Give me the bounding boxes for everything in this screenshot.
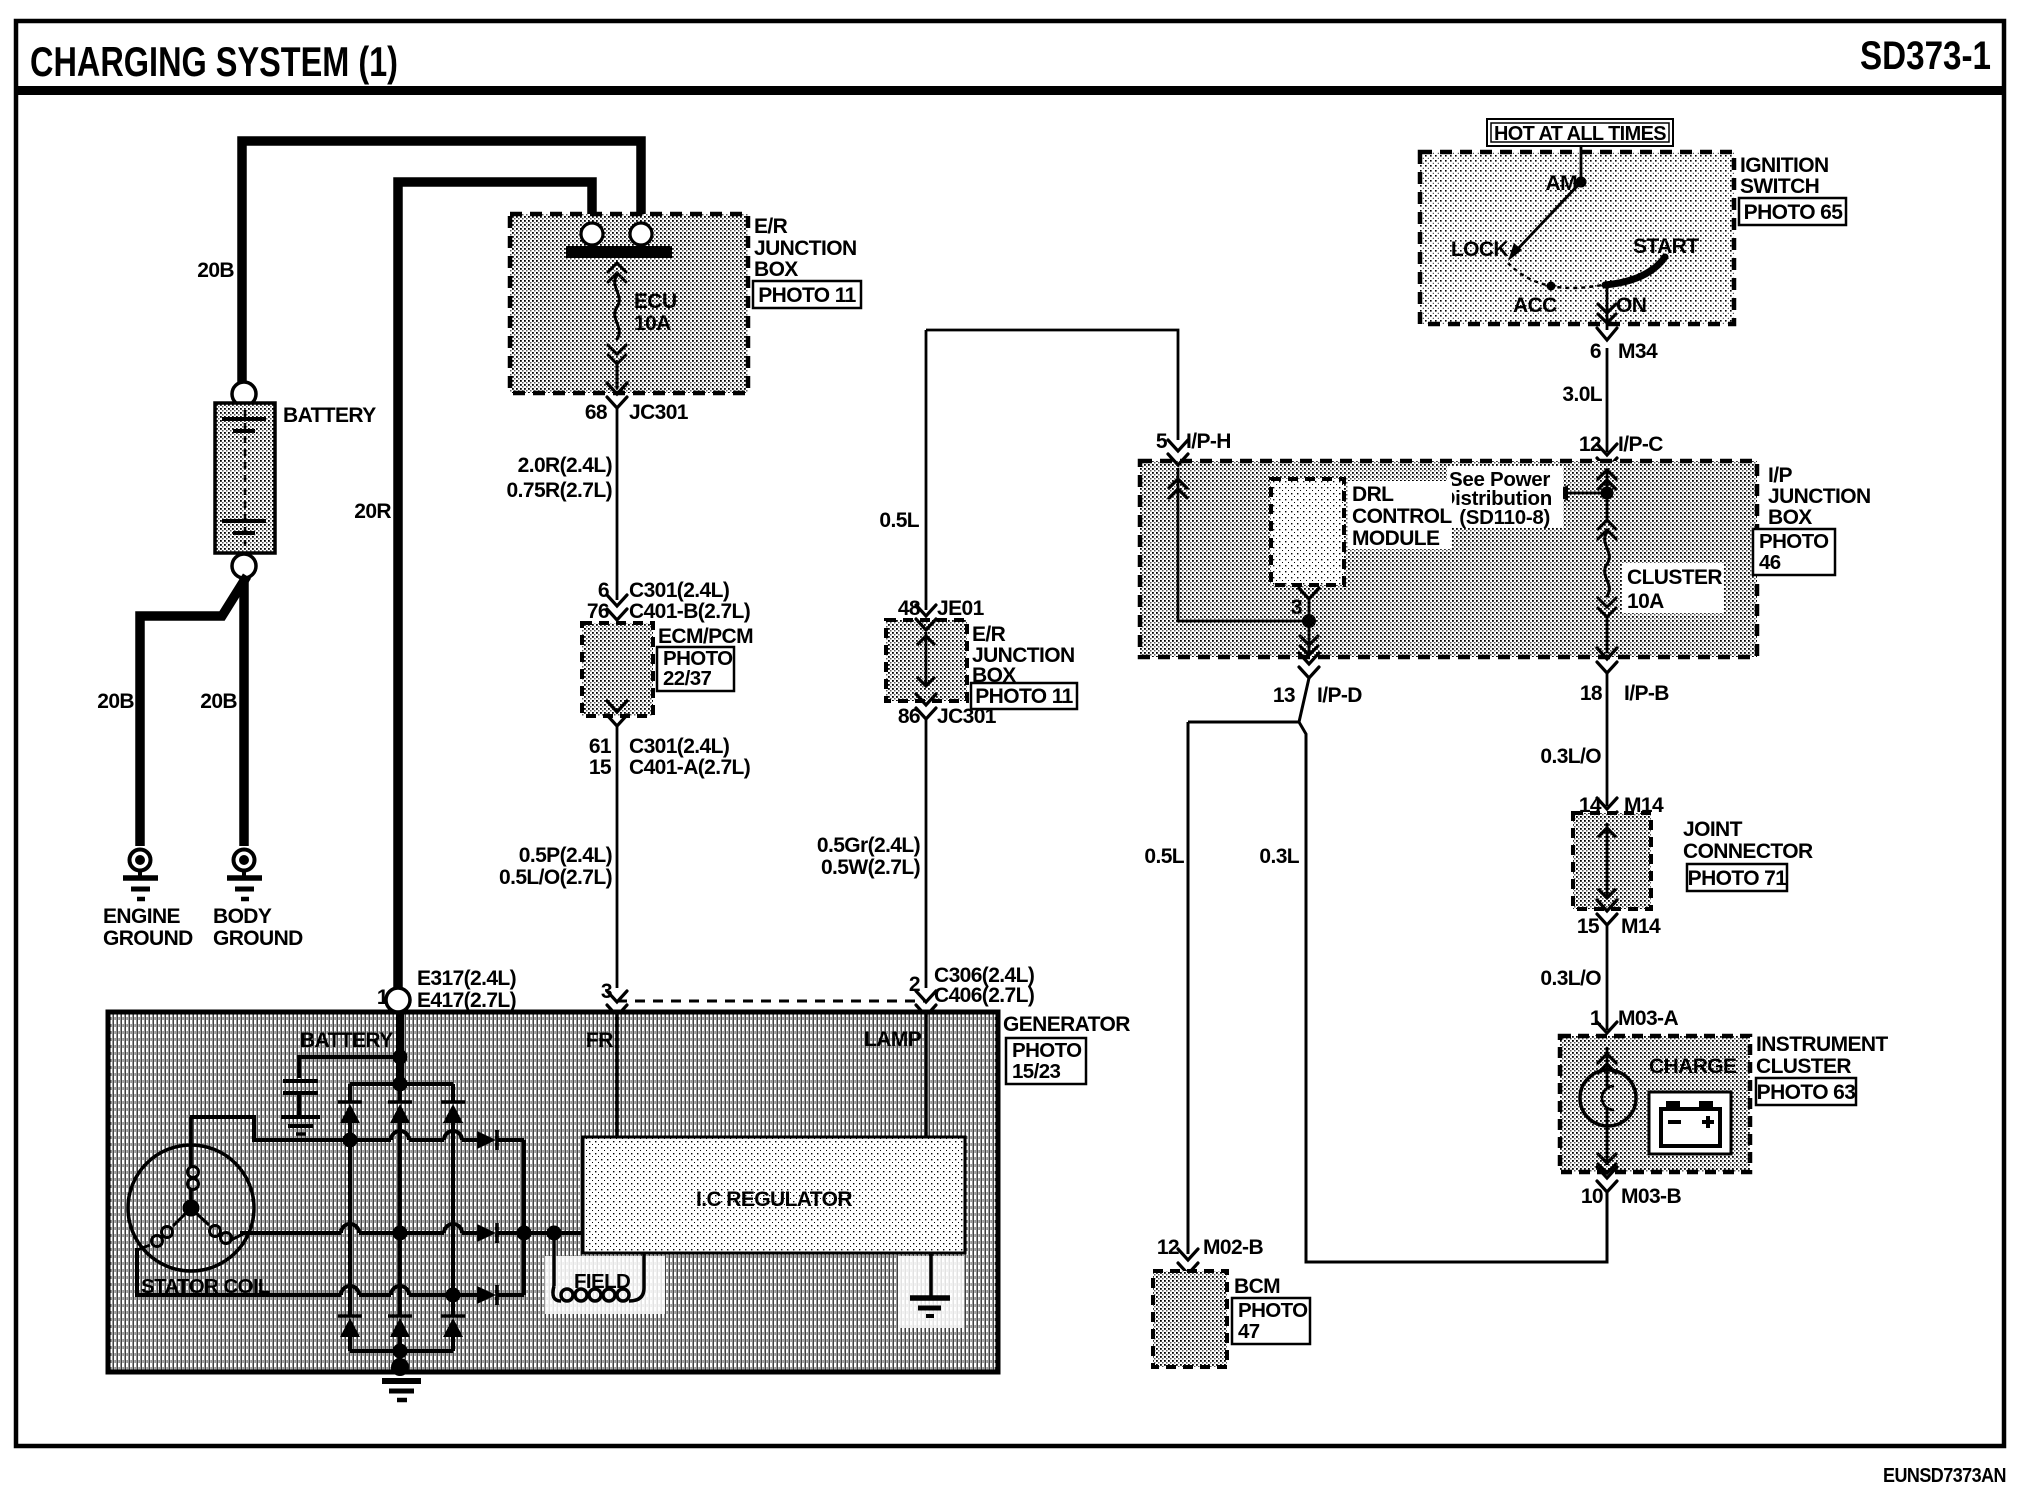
- svg-text:C401-A(2.7L): C401-A(2.7L): [629, 756, 750, 779]
- svg-text:FIELD: FIELD: [574, 1270, 630, 1293]
- internal capacitor-ground branch: [281, 1057, 400, 1134]
- wire thick 20R run to junction box: [398, 182, 592, 990]
- svg-text:GROUND: GROUND: [213, 927, 303, 950]
- wire 15 M14 to M03-A: [1606, 925, 1609, 1030]
- svg-text:I/P-C: I/P-C: [1618, 433, 1663, 456]
- svg-text:0.5L: 0.5L: [1144, 845, 1184, 868]
- diode D7 bottom-left: [338, 1316, 362, 1351]
- svg-text:2.0R(2.4L): 2.0R(2.4L): [518, 454, 612, 477]
- wire FR inside generator: [615, 1012, 619, 1137]
- svg-text:PHOTO 71: PHOTO 71: [1688, 867, 1788, 890]
- svg-text:12: 12: [1157, 1236, 1179, 1259]
- svg-text:CONTROL: CONTROL: [1352, 505, 1452, 528]
- node bottom rail: [393, 1344, 408, 1359]
- svg-text:15: 15: [589, 756, 612, 779]
- svg-text:10A: 10A: [1627, 590, 1664, 613]
- svg-text:C301(2.4L): C301(2.4L): [629, 735, 729, 758]
- battery top terminal circle: [232, 382, 256, 406]
- battery bottom terminal circle: [232, 554, 256, 578]
- wire M34 to I/P-C: [1606, 348, 1609, 452]
- I.C regulator box: [583, 1137, 965, 1253]
- wire 0.5L branch horizontal: [1188, 721, 1299, 724]
- svg-text:PHOTO: PHOTO: [1012, 1039, 1082, 1062]
- connector pin 1 M03-A: [1597, 1022, 1617, 1047]
- svg-text:JC301: JC301: [629, 401, 689, 424]
- svg-text:JOINT: JOINT: [1683, 818, 1743, 841]
- BCM box: [1153, 1271, 1227, 1367]
- E/R junction box (mid): [886, 620, 967, 701]
- title separator bar: [16, 86, 2004, 95]
- label PHOTO 15/23 box: [1006, 1038, 1086, 1084]
- ignition switch ACC node: [1547, 282, 1556, 291]
- connector pin 5 I/P-H: [1168, 440, 1188, 465]
- node trio bus junction: [517, 1226, 532, 1241]
- svg-text:0.5Gr(2.4L): 0.5Gr(2.4L): [817, 834, 920, 857]
- svg-text:CLUSTER: CLUSTER: [1627, 566, 1722, 589]
- svg-text:FR: FR: [586, 1029, 613, 1052]
- svg-text:1: 1: [1590, 1007, 1602, 1030]
- battery BAT1: [215, 403, 275, 553]
- svg-text:HOT AT ALL TIMES: HOT AT ALL TIMES: [1494, 122, 1666, 145]
- connector pin 61/15 ECM bottom: [607, 701, 627, 726]
- svg-text:0.5L: 0.5L: [879, 509, 919, 532]
- svg-text:PHOTO 11: PHOTO 11: [758, 284, 856, 307]
- svg-text:18: 18: [1580, 682, 1603, 705]
- svg-text:20B: 20B: [197, 259, 234, 282]
- wire bottom loop M03-B to I/P-D: [1299, 678, 1607, 1262]
- engine ground symbol: [123, 850, 158, 900]
- wire HOT to AM: [1580, 146, 1583, 182]
- bottom rail: [350, 1349, 453, 1353]
- label PHOTO 22/37 box: [657, 647, 734, 691]
- svg-text:I/P-H: I/P-H: [1186, 430, 1231, 453]
- generator dashed top link pin3-pin2: [617, 1000, 926, 1003]
- svg-text:MODULE: MODULE: [1352, 527, 1440, 550]
- svg-text:GROUND: GROUND: [103, 927, 193, 950]
- wire 0.5L down to JE01: [925, 330, 928, 610]
- stator coil Y windings: [137, 1117, 243, 1250]
- generator pin 1 circle: [386, 988, 410, 1012]
- node phase A left column: [343, 1133, 358, 1148]
- diode D6 trio bottom: [477, 1285, 524, 1305]
- phase C rail: [137, 1248, 477, 1295]
- svg-text:(SD110-8): (SD110-8): [1459, 506, 1550, 529]
- cluster exit arrow: [1598, 1154, 1616, 1173]
- svg-text:76: 76: [587, 600, 609, 623]
- charge lamp circle: [1580, 1070, 1636, 1126]
- connector pin 6 M34: [1597, 328, 1617, 340]
- instrument cluster box: [1560, 1036, 1750, 1172]
- svg-text:48: 48: [898, 597, 921, 620]
- connector pin 18 I/P-B: [1597, 648, 1617, 673]
- connector pin 68 JC301: [607, 383, 627, 408]
- ignition switch blade AM-LOCK: [1514, 182, 1581, 253]
- bridge column left: [348, 1123, 352, 1316]
- svg-text:20B: 20B: [200, 690, 237, 713]
- trio bus vertical: [522, 1140, 526, 1295]
- svg-text:M03-B: M03-B: [1621, 1185, 1681, 1208]
- svg-text:BOX: BOX: [1768, 506, 1812, 529]
- svg-text:EUNSD7373AN: EUNSD7373AN: [1883, 1464, 2006, 1487]
- I/P junction box: [1140, 461, 1757, 657]
- connector pin 12 M02-B: [1178, 1249, 1198, 1274]
- svg-text:JE01: JE01: [937, 597, 985, 620]
- see power distribution arrow: [1567, 492, 1607, 495]
- diode D1 top-left: [338, 1084, 362, 1123]
- connector pin 3 DRL: [1299, 588, 1319, 599]
- fuse CLUSTER 10A: [1598, 493, 1616, 652]
- svg-text:I/P-D: I/P-D: [1317, 684, 1362, 707]
- svg-text:M03-A: M03-A: [1618, 1007, 1678, 1030]
- svg-text:LOCK: LOCK: [1451, 238, 1509, 261]
- ignition switch AM node: [1576, 177, 1587, 188]
- diode D9 bottom-right: [441, 1316, 465, 1351]
- svg-text:E/R: E/R: [972, 623, 1006, 646]
- svg-text:ACC: ACC: [1513, 294, 1557, 317]
- label HOT AT ALL TIMES box: [1487, 119, 1673, 146]
- wire node to I/P-D: [1308, 621, 1311, 652]
- svg-text:PHOTO: PHOTO: [1238, 1299, 1308, 1322]
- wire through E/R box mid: [917, 632, 935, 686]
- wire LAMP inside generator: [924, 1012, 928, 1137]
- joint connector box: [1573, 813, 1651, 909]
- lamp ground white pocket: [898, 1256, 964, 1328]
- svg-text:CLUSTER: CLUSTER: [1756, 1055, 1851, 1078]
- svg-text:ON: ON: [1616, 294, 1646, 317]
- wire I/P-H leg: [1178, 468, 1309, 621]
- svg-text:15: 15: [1577, 915, 1600, 938]
- wire battery main drop: [396, 1012, 404, 1084]
- svg-text:46: 46: [1759, 551, 1781, 574]
- connector pin 12 I/P-C: [1597, 444, 1617, 469]
- stator coil circle: [128, 1145, 254, 1271]
- svg-text:PHOTO: PHOTO: [1759, 530, 1829, 553]
- svg-text:E317(2.4L): E317(2.4L): [417, 967, 516, 990]
- label PHOTO 71 box: [1687, 864, 1787, 891]
- svg-text:10A: 10A: [634, 312, 671, 335]
- wire 68 to ECM: [616, 408, 619, 600]
- connector pin 2 LAMP arrow: [916, 991, 936, 1016]
- svg-text:ENGINE: ENGINE: [103, 905, 181, 928]
- junction box bus bar: [566, 246, 672, 258]
- svg-text:BODY: BODY: [213, 905, 272, 928]
- svg-text:12: 12: [1579, 433, 1601, 456]
- node phase B mid column: [393, 1226, 408, 1241]
- svg-text:15/23: 15/23: [1012, 1060, 1060, 1083]
- svg-text:ECM/PCM: ECM/PCM: [658, 625, 753, 648]
- wire through joint connector: [1598, 823, 1616, 898]
- svg-text:6: 6: [1590, 340, 1601, 363]
- svg-text:BCM: BCM: [1234, 1275, 1280, 1298]
- svg-text:47: 47: [1238, 1320, 1260, 1343]
- svg-text:5: 5: [1156, 430, 1168, 453]
- node see-power junction: [1601, 487, 1614, 500]
- lamp-side ground: [910, 1253, 950, 1316]
- svg-text:JUNCTION: JUNCTION: [754, 237, 857, 260]
- svg-text:13: 13: [1273, 684, 1295, 707]
- wire 86 to generator LAMP: [925, 719, 928, 988]
- svg-text:I.C REGULATOR: I.C REGULATOR: [696, 1188, 852, 1211]
- label PHOTO 46 box: [1753, 529, 1835, 575]
- phase B rail: [240, 1224, 477, 1233]
- wire ON to M34: [1606, 284, 1609, 330]
- body ground symbol: [227, 850, 262, 900]
- svg-text:61: 61: [589, 735, 612, 758]
- connector pin 6/76 into ECM: [607, 595, 627, 620]
- svg-text:BATTERY: BATTERY: [300, 1029, 393, 1052]
- diode D5 trio mid: [477, 1223, 524, 1243]
- connector pin 86 JC301: [916, 694, 936, 719]
- svg-text:C401-B(2.7L): C401-B(2.7L): [629, 600, 750, 623]
- svg-text:20R: 20R: [354, 500, 391, 523]
- svg-text:DRL: DRL: [1352, 483, 1394, 506]
- svg-text:22/37: 22/37: [663, 667, 711, 690]
- svg-text:M02-B: M02-B: [1203, 1236, 1263, 1259]
- svg-text:SWITCH: SWITCH: [1740, 175, 1819, 198]
- diode D8 bottom-mid: [388, 1316, 412, 1351]
- connector pin 13 I/P-D: [1299, 653, 1319, 678]
- wire thick battery-to-junction (20B top run): [242, 141, 641, 386]
- svg-text:20B: 20B: [97, 690, 134, 713]
- label See Power Distribution (SD110-8): [1447, 466, 1563, 528]
- svg-text:6: 6: [598, 579, 609, 602]
- label PHOTO 47 box: [1232, 1298, 1310, 1344]
- svg-text:STATOR COIL: STATOR COIL: [141, 1275, 270, 1298]
- svg-text:JC301: JC301: [937, 705, 997, 728]
- svg-text:CHARGE: CHARGE: [1649, 1055, 1737, 1078]
- svg-text:M34: M34: [1618, 340, 1658, 363]
- wire I/P-C into box to node: [1606, 469, 1609, 493]
- wire trio to regulator: [524, 1231, 583, 1235]
- label CLUSTER 10A: [1622, 563, 1724, 613]
- DRL control module box: [1271, 479, 1344, 585]
- svg-text:3: 3: [1291, 596, 1302, 619]
- generator case ground: [382, 1358, 421, 1400]
- fuse ECU 10A: [608, 263, 626, 388]
- node DRL junction: [1302, 614, 1316, 628]
- junction box terminal circle B: [630, 223, 652, 245]
- svg-text:68: 68: [585, 401, 608, 424]
- wire DRL pin3 to node: [1308, 599, 1311, 621]
- field coil white pocket: [545, 1256, 665, 1314]
- generator box: [108, 1012, 998, 1372]
- svg-text:C301(2.4L): C301(2.4L): [629, 579, 729, 602]
- svg-text:SD373-1: SD373-1: [1860, 34, 1991, 78]
- svg-text:0.3L/O: 0.3L/O: [1540, 745, 1601, 768]
- svg-text:E/R: E/R: [754, 215, 788, 238]
- diode D4 trio top: [477, 1130, 524, 1150]
- label PHOTO 63 box: [1756, 1078, 1856, 1105]
- E/R junction box (top): [510, 214, 748, 393]
- svg-text:0.75R(2.7L): 0.75R(2.7L): [507, 479, 612, 502]
- connector pin 15 M14: [1597, 900, 1617, 925]
- svg-text:START: START: [1633, 235, 1699, 258]
- label PHOTO 11 box: [753, 281, 861, 308]
- connector pin 14 M14: [1597, 798, 1617, 823]
- svg-text:PHOTO 63: PHOTO 63: [1757, 1081, 1856, 1104]
- svg-text:INSTRUMENT: INSTRUMENT: [1756, 1033, 1888, 1056]
- svg-text:3.0L: 3.0L: [1562, 383, 1602, 406]
- wire I/P-B to M14: [1606, 673, 1609, 806]
- svg-text:LAMP: LAMP: [864, 1028, 922, 1051]
- bridge column mid: [398, 1123, 402, 1316]
- wire into charge lamp: [1606, 1047, 1609, 1070]
- ignition switch START arc: [1605, 257, 1665, 285]
- svg-text:BATTERY: BATTERY: [283, 404, 376, 427]
- ignition switch dashed arc: [1508, 263, 1607, 288]
- svg-text:86: 86: [898, 705, 920, 728]
- bridge column right: [451, 1123, 455, 1316]
- svg-text:I/P-B: I/P-B: [1624, 682, 1669, 705]
- svg-text:E417(2.7L): E417(2.7L): [417, 989, 516, 1012]
- node gen top A: [393, 1050, 408, 1065]
- diode D2 top-mid: [388, 1084, 412, 1123]
- phase A rail: [190, 1117, 477, 1140]
- label PHOTO 11 box mid: [971, 683, 1077, 709]
- field coil branch: [553, 1233, 644, 1301]
- wire 0.5L down to BCM: [1187, 722, 1190, 1254]
- lamp filament: [1602, 1086, 1614, 1110]
- svg-text:PHOTO 65: PHOTO 65: [1744, 201, 1844, 224]
- svg-text:10: 10: [1581, 1185, 1603, 1208]
- svg-text:0.5P(2.4L): 0.5P(2.4L): [519, 844, 612, 867]
- label DRL CONTROL MODULE: [1348, 481, 1452, 549]
- connector pin 10 M03-B: [1597, 1167, 1617, 1192]
- wire to generator ground: [398, 1351, 402, 1369]
- connector pin 48 JE01: [916, 605, 936, 630]
- diode bridge top rail: [350, 1082, 453, 1086]
- wire ECM to generator FR: [616, 726, 619, 988]
- svg-text:JUNCTION: JUNCTION: [1768, 485, 1871, 508]
- svg-text:GENERATOR: GENERATOR: [1003, 1013, 1130, 1036]
- svg-text:C406(2.7L): C406(2.7L): [934, 984, 1034, 1007]
- svg-text:0.3L/O: 0.3L/O: [1540, 967, 1601, 990]
- svg-text:M14: M14: [1621, 915, 1661, 938]
- connector pin 3 FR arrow: [607, 991, 627, 1016]
- wire thick to body ground: [239, 578, 249, 846]
- node gen top B: [393, 1077, 408, 1092]
- node field branch: [547, 1226, 562, 1241]
- wire thick branch to engine ground: [140, 576, 247, 846]
- svg-text:I/P: I/P: [1768, 464, 1792, 487]
- svg-text:CONNECTOR: CONNECTOR: [1683, 840, 1813, 863]
- svg-text:CHARGING SYSTEM (1): CHARGING SYSTEM (1): [30, 38, 398, 85]
- svg-text:0.3L: 0.3L: [1259, 845, 1299, 868]
- ignition switch box: [1420, 152, 1734, 324]
- junction box terminal circle A: [581, 223, 603, 245]
- svg-text:BOX: BOX: [754, 258, 798, 281]
- wire 0.5L from ignition feed horizontal: [926, 330, 1178, 440]
- svg-text:0.5W(2.7L): 0.5W(2.7L): [821, 856, 920, 879]
- label PHOTO 65 box: [1739, 198, 1846, 225]
- svg-text:IGNITION: IGNITION: [1740, 154, 1829, 177]
- svg-text:0.5L/O(2.7L): 0.5L/O(2.7L): [499, 866, 612, 889]
- node phase C right column: [446, 1288, 461, 1303]
- battery telltale icon: [1649, 1092, 1731, 1154]
- diode D3 top-right: [441, 1084, 465, 1123]
- ECM/PCM box: [582, 623, 653, 716]
- svg-text:ECU: ECU: [634, 290, 677, 313]
